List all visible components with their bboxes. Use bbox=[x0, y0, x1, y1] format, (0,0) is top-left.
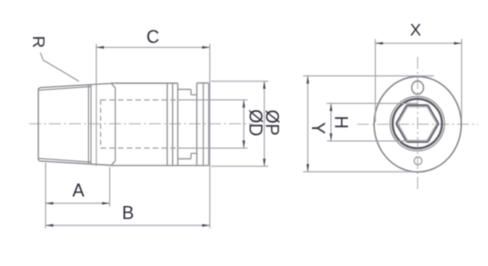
hex socket bbox=[396, 105, 438, 142]
svg-text:Y: Y bbox=[308, 122, 328, 134]
top mounting hole bbox=[412, 81, 424, 94]
hex socket chamfer bbox=[398, 107, 436, 141]
svg-text:B: B bbox=[122, 203, 134, 223]
svg-text:H: H bbox=[331, 116, 351, 129]
hidden bore end bbox=[100, 100, 102, 148]
body chamfer top bbox=[111, 83, 115, 88]
collar line 2 bbox=[177, 83, 179, 165]
dim OP arrow top bbox=[263, 81, 266, 89]
dim A extension left bbox=[45, 163, 47, 229]
bottom mounting hole bbox=[414, 157, 422, 165]
flange oval bbox=[374, 77, 461, 172]
dim B line bbox=[46, 224, 210, 226]
dim OP line bbox=[263, 81, 265, 166]
dim Y arrow bottom bbox=[306, 164, 309, 172]
dim A extension right bbox=[109, 167, 111, 207]
dim X extension left bbox=[374, 39, 376, 122]
body chamfer bottom bbox=[111, 161, 115, 166]
dim A arrow right bbox=[102, 202, 110, 205]
body top edge bbox=[111, 82, 178, 84]
body bottom edge bbox=[111, 165, 209, 167]
dim OP arrow bottom bbox=[263, 159, 266, 167]
dim B arrow left bbox=[46, 224, 54, 227]
svg-text:ØP: ØP bbox=[262, 110, 282, 136]
thread end line 1 bbox=[88, 85, 90, 164]
dim A line bbox=[46, 202, 110, 204]
body chamfer plane bbox=[114, 88, 116, 161]
dim C extension left bbox=[95, 44, 97, 166]
svg-text:C: C bbox=[146, 27, 159, 47]
hidden bore bottom bbox=[101, 147, 181, 149]
dim H extension top bbox=[327, 102, 419, 104]
dim C/B extension right bbox=[209, 44, 211, 229]
cap right edge bbox=[208, 83, 210, 166]
body end line bbox=[166, 83, 168, 165]
centerline left view bbox=[29, 123, 253, 125]
chamfer circle bbox=[390, 96, 444, 150]
dim Y arrow top bbox=[306, 76, 309, 84]
dim OD extension bottom bbox=[181, 147, 248, 149]
dim Y line bbox=[307, 76, 309, 172]
dim Y extension bottom bbox=[303, 171, 416, 173]
dim A arrow left bbox=[46, 202, 54, 205]
groove step vertical bottom bbox=[190, 153, 192, 158]
centerline right view horizontal bbox=[357, 123, 478, 125]
dim Y extension top bbox=[303, 75, 434, 77]
dim OD arrow bottom bbox=[242, 141, 245, 149]
dim OD extension top bbox=[181, 99, 248, 101]
dim OD arrow top bbox=[242, 100, 245, 108]
cap left edge bbox=[196, 83, 198, 166]
thread outer taper top bbox=[40, 83, 111, 87]
dim B arrow right bbox=[202, 224, 210, 227]
dim OP extension top bbox=[211, 80, 268, 82]
dim H extension bottom bbox=[327, 140, 418, 142]
dim X arrow left bbox=[375, 42, 383, 45]
dim X line bbox=[375, 42, 461, 44]
dim C line bbox=[96, 46, 210, 48]
thread root line top bbox=[39, 87, 91, 91]
leader R bbox=[40, 53, 79, 82]
cap middle line bbox=[202, 83, 204, 166]
dim C arrow left bbox=[96, 46, 104, 49]
groove step vertical bbox=[190, 89, 192, 94]
svg-text:R: R bbox=[29, 36, 48, 48]
dim H arrow top bbox=[330, 103, 333, 111]
thread end line 2 bbox=[90, 85, 92, 165]
small step top edge bbox=[191, 94, 197, 96]
dim X extension right bbox=[461, 39, 463, 122]
svg-text:A: A bbox=[72, 181, 84, 201]
collar line 1 bbox=[172, 83, 174, 165]
thread left edge bbox=[38, 88, 40, 161]
hidden bore top bbox=[101, 99, 181, 101]
centerline right view vertical bbox=[417, 57, 419, 191]
dim C arrow right bbox=[202, 46, 210, 49]
hex boss circle bbox=[393, 99, 442, 148]
groove top edge bbox=[178, 88, 191, 90]
dim X arrow right bbox=[454, 42, 462, 45]
thread root line bottom bbox=[39, 158, 91, 162]
thread outer taper bottom bbox=[40, 161, 111, 165]
dim OD line bbox=[243, 100, 245, 148]
dim OP extension bottom bbox=[211, 165, 268, 167]
svg-text:X: X bbox=[410, 21, 421, 40]
dim H arrow bottom bbox=[330, 133, 333, 141]
cap top edge bbox=[197, 82, 209, 84]
groove bottom edge bbox=[178, 158, 191, 160]
dim H line bbox=[330, 103, 332, 141]
small step bottom edge bbox=[191, 152, 197, 154]
